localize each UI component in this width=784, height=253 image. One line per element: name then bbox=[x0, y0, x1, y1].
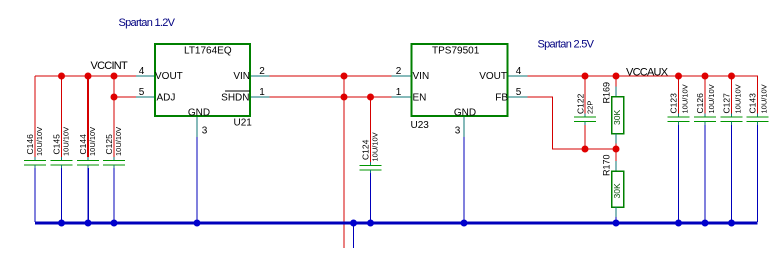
wire VCCINT rail bbox=[35, 75, 136, 77]
junction EN net at x344 bbox=[341, 94, 348, 101]
capacitor C143 bbox=[747, 84, 769, 222]
svg-text:VIN: VIN bbox=[413, 71, 430, 82]
svg-text:10U/10V: 10U/10V bbox=[88, 127, 97, 156]
svg-text:C127: C127 bbox=[722, 93, 732, 114]
svg-text:SHDN: SHDN bbox=[221, 93, 249, 104]
svg-text:Spartan 1.2V: Spartan 1.2V bbox=[119, 17, 176, 29]
svg-text:C122: C122 bbox=[576, 93, 586, 114]
svg-text:10U/10V: 10U/10V bbox=[35, 127, 44, 156]
junction VCCINT at C144 bbox=[85, 73, 92, 80]
svg-text:U23: U23 bbox=[411, 120, 430, 131]
U23 pin 3 GND stub bbox=[463, 117, 465, 137]
svg-text:VIN: VIN bbox=[233, 71, 250, 82]
capacitor C127 bbox=[721, 76, 743, 222]
svg-text:C123: C123 bbox=[669, 93, 679, 114]
junction ground at bottom stub bbox=[350, 220, 357, 227]
capacitor C126 bbox=[694, 76, 716, 222]
junction ground at C145 bbox=[58, 220, 65, 227]
capacitor C124 bbox=[360, 97, 382, 222]
svg-text:Spartan 2.5V: Spartan 2.5V bbox=[538, 39, 595, 51]
capacitor C146 bbox=[24, 76, 46, 222]
wire FB net from U23 pin 5 bbox=[528, 97, 617, 149]
svg-text:LT1764EQ: LT1764EQ bbox=[184, 46, 232, 57]
junction VCCINT at C145 bbox=[58, 73, 65, 80]
svg-text:10U/10V: 10U/10V bbox=[62, 127, 71, 156]
svg-text:10U/10V: 10U/10V bbox=[734, 84, 743, 113]
junction ground at C144 bbox=[85, 220, 92, 227]
svg-text:3: 3 bbox=[202, 126, 208, 137]
svg-text:1: 1 bbox=[259, 87, 265, 98]
svg-text:C145: C145 bbox=[52, 134, 62, 155]
U21 pin 4 stub bbox=[136, 75, 154, 77]
svg-text:TPS79501: TPS79501 bbox=[432, 46, 480, 57]
svg-text:GND: GND bbox=[454, 108, 476, 119]
svg-text:4: 4 bbox=[139, 66, 145, 77]
wire VCCAUX rail bbox=[528, 76, 758, 114]
op-amp U23 regulator TPS79501 body bbox=[411, 44, 509, 131]
U21 pin 3 GND stub bbox=[196, 117, 198, 137]
wire ground stub to bottom edge bbox=[353, 223, 355, 248]
svg-text:C144: C144 bbox=[78, 134, 88, 155]
resistor R170 bbox=[602, 149, 624, 222]
svg-text:U21: U21 bbox=[234, 118, 253, 129]
svg-text:C146: C146 bbox=[25, 134, 35, 155]
junction EN net at C124 bbox=[367, 94, 374, 101]
junction ground at C124 bbox=[367, 220, 374, 227]
svg-text:4: 4 bbox=[516, 66, 522, 77]
junction VCCAUX at R169 bbox=[613, 73, 620, 80]
U21 pin 2 stub bbox=[251, 75, 270, 77]
svg-text:30K: 30K bbox=[612, 110, 622, 125]
junction ADJ node bbox=[111, 94, 118, 101]
svg-text:1: 1 bbox=[396, 87, 402, 98]
wire U23 GND to ground rail bbox=[463, 137, 465, 222]
svg-text:VCCAUX: VCCAUX bbox=[626, 67, 669, 79]
junction ground at C126 bbox=[702, 220, 709, 227]
U23 pin 5 stub bbox=[509, 96, 528, 98]
junction ground at U23 GND bbox=[461, 220, 468, 227]
junction VCCAUX at C126 bbox=[702, 73, 709, 80]
junction VCCAUX at C122 bbox=[582, 73, 589, 80]
svg-text:10U/10V: 10U/10V bbox=[681, 84, 690, 113]
U21 pin 1 stub bbox=[251, 96, 270, 98]
wire ADJ horizontal to U21 pin 5 bbox=[114, 96, 136, 98]
svg-text:VCCINT: VCCINT bbox=[91, 60, 128, 72]
junction VCCINT at C125/ADJ bbox=[111, 73, 118, 80]
wire U21 GND to ground rail bbox=[196, 137, 198, 222]
svg-text:GND: GND bbox=[188, 108, 210, 119]
wire EN/SHDN net between U21 and U23 bbox=[270, 96, 392, 98]
capacitor C125 bbox=[103, 97, 125, 222]
junction VIN net at x344 bbox=[341, 73, 348, 80]
op-amp U21 regulator LT1764EQ body bbox=[155, 44, 252, 129]
junction VCCAUX at C123 bbox=[675, 73, 682, 80]
svg-text:FB: FB bbox=[495, 93, 508, 104]
svg-text:EN: EN bbox=[413, 93, 427, 104]
capacitor C122 bbox=[574, 76, 596, 149]
svg-text:3: 3 bbox=[455, 126, 461, 137]
resistor R169 bbox=[602, 76, 624, 149]
junction VCCAUX at C127 bbox=[728, 73, 735, 80]
U23 pin 2 stub bbox=[392, 75, 411, 77]
svg-text:ADJ: ADJ bbox=[157, 93, 176, 104]
svg-text:VOUT: VOUT bbox=[155, 71, 183, 82]
svg-text:10U/10V: 10U/10V bbox=[760, 84, 769, 113]
U23 pin 1 stub bbox=[392, 96, 411, 98]
junction ground at C127 bbox=[728, 220, 735, 227]
svg-text:C125: C125 bbox=[104, 134, 114, 155]
svg-text:2: 2 bbox=[396, 66, 402, 77]
junction ground at R170 bbox=[613, 220, 620, 227]
junction ground at C125 bbox=[111, 220, 118, 227]
svg-text:22P: 22P bbox=[586, 101, 595, 114]
junction ground at C123 bbox=[675, 220, 682, 227]
capacitor C123 bbox=[668, 76, 690, 222]
svg-text:5: 5 bbox=[139, 87, 145, 98]
junction ground at U21 GND bbox=[194, 220, 201, 227]
svg-text:C124: C124 bbox=[361, 139, 371, 160]
svg-text:R170: R170 bbox=[602, 154, 612, 176]
capacitor C145 bbox=[51, 76, 73, 222]
wire VIN net between U21 and U23 bbox=[270, 75, 392, 77]
svg-text:2: 2 bbox=[259, 66, 265, 77]
svg-text:R169: R169 bbox=[602, 82, 612, 104]
svg-text:10U/10V: 10U/10V bbox=[371, 132, 380, 161]
svg-text:10U/10V: 10U/10V bbox=[114, 127, 123, 156]
U21 pin 5 stub bbox=[136, 96, 154, 98]
capacitor C144 bbox=[77, 76, 99, 222]
wire input feed vertical to bottom edge bbox=[343, 76, 345, 248]
svg-text:VOUT: VOUT bbox=[479, 71, 507, 82]
ground rail bbox=[35, 222, 758, 225]
svg-text:C126: C126 bbox=[695, 93, 705, 114]
wire ADJ vertical from VCCINT rail bbox=[113, 76, 115, 97]
svg-text:30K: 30K bbox=[612, 183, 622, 198]
junction FB net at R169/R170 bbox=[613, 146, 620, 153]
U23 pin 4 stub bbox=[509, 75, 528, 77]
junction FB net at C122 bbox=[582, 146, 589, 153]
svg-text:10U/10V: 10U/10V bbox=[707, 84, 716, 113]
svg-text:C143: C143 bbox=[748, 93, 758, 114]
svg-text:5: 5 bbox=[516, 87, 522, 98]
